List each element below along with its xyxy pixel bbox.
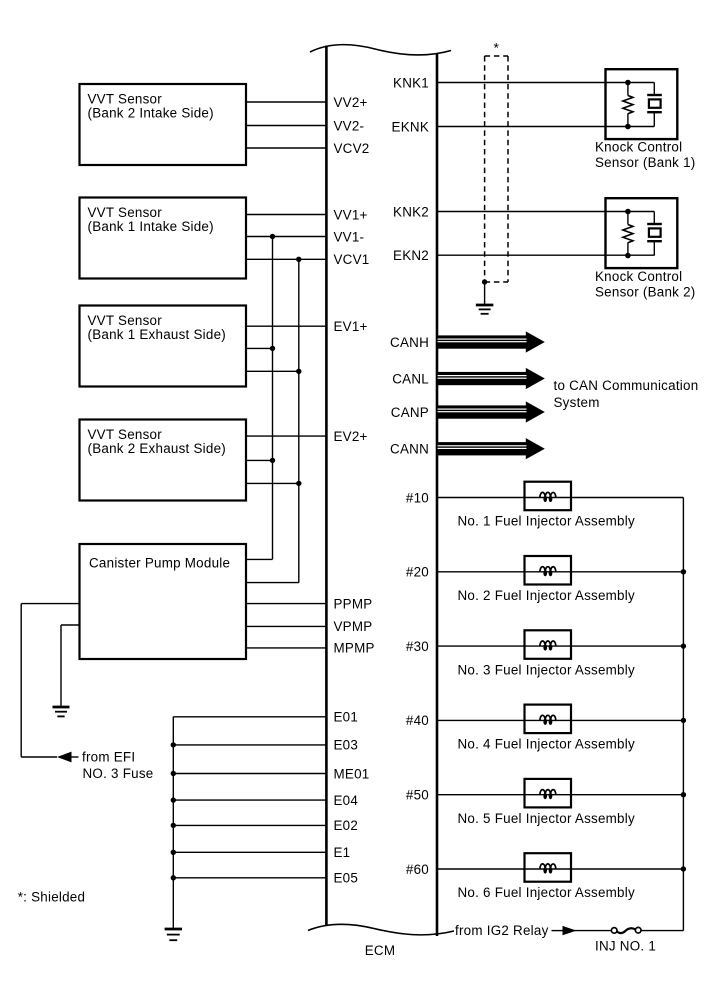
- label to CAN Communication System: [554, 378, 699, 410]
- wire VV2-: [246, 125, 327, 127]
- pin label CANH: [390, 335, 429, 350]
- svg-text:NO. 3 Fuse: NO. 3 Fuse: [83, 766, 154, 781]
- svg-text:to CAN Communication: to CAN Communication: [554, 378, 699, 393]
- label No. 3 Fuel Injector Assembly: [458, 662, 635, 677]
- svg-text:from EFI: from EFI: [82, 750, 135, 765]
- ECM label: [365, 943, 396, 958]
- bus arrow CANP: [437, 401, 545, 422]
- svg-text:#40: #40: [406, 713, 429, 728]
- svg-text:ECM: ECM: [365, 943, 396, 958]
- svg-text:(Bank 2 Exhaust Side): (Bank 2 Exhaust Side): [88, 441, 226, 456]
- svg-text:MPMP: MPMP: [334, 641, 375, 656]
- pin label EKNK: [392, 119, 429, 134]
- fuel injector coil L1: [525, 482, 572, 511]
- svg-text:No. 4 Fuel Injector Assembly: No. 4 Fuel Injector Assembly: [458, 737, 635, 752]
- wire Bank2-exhaust to VV1- net: [246, 458, 275, 463]
- svg-text:VV1-: VV1-: [334, 229, 365, 244]
- label No. 4 Fuel Injector Assembly: [458, 737, 635, 752]
- pin label VV2+: [334, 95, 368, 110]
- svg-text:#30: #30: [406, 639, 429, 654]
- VVT sensor (Bank 1 Exhaust Side): [80, 306, 247, 387]
- svg-text:VCV1: VCV1: [334, 252, 370, 267]
- fuel injector coil L6: [525, 853, 572, 882]
- svg-text:from IG2 Relay: from IG2 Relay: [455, 923, 549, 938]
- wire fuse to injector bus: [641, 930, 683, 932]
- injector common bus: [681, 498, 686, 931]
- svg-text:#20: #20: [406, 565, 429, 580]
- fuel injector coil L4: [525, 705, 572, 734]
- svg-text:VPMP: VPMP: [334, 619, 373, 634]
- svg-text:INJ NO. 1: INJ NO. 1: [595, 938, 656, 953]
- wire E1: [171, 850, 328, 855]
- wire VV1- net to canister: [246, 558, 273, 560]
- pin label #20: [406, 565, 429, 580]
- svg-text:#50: #50: [406, 788, 429, 803]
- svg-text:CANL: CANL: [392, 371, 429, 386]
- wire Bank1-exhaust to VCV1 net: [246, 369, 301, 374]
- knock control sensor (Bank 1): R + piezo element: [606, 69, 678, 139]
- svg-text:EKNK: EKNK: [392, 119, 429, 134]
- svg-text:E05: E05: [334, 871, 359, 886]
- svg-text:VV1+: VV1+: [334, 207, 368, 222]
- pin label E1: [334, 845, 351, 860]
- pin label E02: [334, 818, 359, 833]
- svg-text:Sensor (Bank 1): Sensor (Bank 1): [595, 155, 696, 170]
- wire EV2+: [246, 435, 327, 437]
- net VCV1 vertical bus: [298, 259, 300, 582]
- svg-text:*: *: [493, 40, 499, 56]
- wire VCV2: [246, 147, 327, 149]
- svg-text:PPMP: PPMP: [334, 596, 373, 611]
- ground (canister pump module): [53, 707, 70, 716]
- arrow from IG2 Relay: [552, 926, 577, 935]
- svg-text:Canister Pump Module: Canister Pump Module: [89, 556, 230, 571]
- wire KNK1: [437, 82, 654, 84]
- svg-text:VVT Sensor: VVT Sensor: [88, 205, 163, 220]
- wire VCV1: [246, 257, 327, 262]
- wire canister to EFI fuse: [21, 604, 79, 757]
- fuel injector coil L5: [525, 779, 572, 808]
- arrow from EFI NO.3 Fuse: [57, 752, 79, 763]
- wire E05: [171, 875, 328, 880]
- wire VV1+: [246, 214, 327, 216]
- label Knock Control Sensor (Bank 1): [595, 140, 696, 171]
- wire PPMP: [246, 603, 327, 605]
- injector #40 wire: [437, 719, 683, 721]
- bus arrow CANN: [437, 438, 545, 459]
- svg-text:VVT Sensor: VVT Sensor: [88, 427, 163, 442]
- wire EKN2: [437, 254, 654, 256]
- pin label #10: [406, 490, 429, 505]
- svg-text:EV2+: EV2+: [334, 429, 368, 444]
- pin label VV1+: [334, 207, 368, 222]
- svg-text:E01: E01: [334, 710, 359, 725]
- bus arrow CANH: [437, 331, 545, 352]
- pin label PPMP: [334, 596, 373, 611]
- pin label VCV2: [334, 141, 370, 156]
- injector #50 wire: [437, 794, 683, 796]
- pin label E03: [334, 738, 359, 753]
- ECM connector body (torn-edge box): [308, 45, 454, 936]
- svg-text:No. 3 Fuel Injector Assembly: No. 3 Fuel Injector Assembly: [458, 662, 635, 677]
- label No. 2 Fuel Injector Assembly: [458, 588, 635, 603]
- ground (E bus): [165, 929, 182, 940]
- pin label ME01: [334, 766, 370, 781]
- bus arrow CANL: [437, 368, 545, 389]
- VVT sensor (Bank 1 Intake Side): [80, 198, 247, 279]
- wire EV1+: [246, 325, 327, 327]
- pin label MPMP: [334, 641, 375, 656]
- svg-text:(Bank 2 Intake Side): (Bank 2 Intake Side): [88, 106, 214, 121]
- shield asterisk marker: [493, 40, 499, 56]
- wire E01: [173, 716, 327, 718]
- svg-text:Knock Control: Knock Control: [595, 269, 682, 284]
- svg-text:CANP: CANP: [391, 405, 429, 420]
- svg-text:No. 6 Fuel Injector Assembly: No. 6 Fuel Injector Assembly: [458, 885, 635, 900]
- pin label CANP: [391, 405, 429, 420]
- pin label CANN: [390, 442, 429, 457]
- pin label #50: [406, 788, 429, 803]
- wire EKNK: [437, 126, 654, 128]
- label No. 5 Fuel Injector Assembly: [458, 811, 635, 826]
- injector #10 wire: [437, 497, 683, 499]
- fuse INJ NO. 1: [611, 927, 641, 933]
- wire Bank2-exhaust to VCV1 net: [246, 481, 301, 486]
- pin label KNK2: [393, 204, 429, 219]
- pin label #30: [406, 639, 429, 654]
- label from EFI NO. 3 Fuse: [82, 750, 153, 781]
- svg-text:KNK1: KNK1: [393, 75, 429, 90]
- pin label E04: [334, 793, 359, 808]
- fuel injector coil L3: [525, 630, 572, 659]
- pin label #40: [406, 713, 429, 728]
- wire Bank1-exhaust to VV1- net: [246, 346, 275, 351]
- pin label VPMP: [334, 619, 373, 634]
- pin label VV2-: [334, 118, 365, 133]
- pin label VV1-: [334, 229, 365, 244]
- svg-text:EKN2: EKN2: [393, 248, 429, 263]
- pin label EV1+: [334, 319, 368, 334]
- svg-text:VVT Sensor: VVT Sensor: [88, 313, 163, 328]
- pin label VCV1: [334, 252, 370, 267]
- label from IG2 Relay: [455, 923, 549, 938]
- label No. 1 Fuel Injector Assembly: [458, 514, 635, 529]
- wire MPMP: [246, 647, 327, 649]
- pin label EKN2: [393, 248, 429, 263]
- svg-text:VV2-: VV2-: [334, 118, 365, 133]
- svg-text:CANH: CANH: [390, 335, 429, 350]
- pin label E01: [334, 710, 359, 725]
- svg-text:VV2+: VV2+: [334, 95, 368, 110]
- label Knock Control Sensor (Bank 2): [595, 269, 696, 300]
- fuel injector coil L2: [525, 556, 572, 585]
- label No. 6 Fuel Injector Assembly: [458, 885, 635, 900]
- ground (shield): [476, 305, 494, 314]
- injector #20 wire: [437, 571, 683, 573]
- svg-text:No. 1 Fuel Injector Assembly: No. 1 Fuel Injector Assembly: [458, 514, 635, 529]
- pin label KNK1: [393, 75, 429, 90]
- label INJ NO. 1: [595, 938, 656, 953]
- svg-text:ME01: ME01: [334, 766, 370, 781]
- wire IG2 relay to fuse: [574, 930, 612, 932]
- net VV1- vertical bus: [272, 237, 274, 560]
- svg-text:*: Shielded: *: Shielded: [18, 889, 86, 904]
- node shield drain junction: [482, 279, 487, 284]
- shield (dashed) around knock sensor wires: [485, 56, 508, 282]
- svg-text:No. 5 Fuel Injector Assembly: No. 5 Fuel Injector Assembly: [458, 811, 635, 826]
- svg-text:E02: E02: [334, 818, 359, 833]
- svg-text:VVT Sensor: VVT Sensor: [88, 92, 163, 107]
- svg-text:CANN: CANN: [390, 442, 429, 457]
- pin label E05: [334, 871, 359, 886]
- wire shield to ground: [484, 282, 486, 304]
- svg-text:(Bank 1 Intake Side): (Bank 1 Intake Side): [88, 219, 214, 234]
- wire KNK2: [437, 211, 654, 213]
- wire ME01: [171, 771, 328, 776]
- VVT sensor (Bank 2 Exhaust Side): [80, 420, 247, 501]
- wire VCV1 net to canister: [246, 582, 299, 584]
- wire VV2+: [246, 101, 327, 103]
- ground bus vertical: [172, 717, 174, 929]
- wire E04: [171, 797, 328, 802]
- injector #60 wire: [437, 868, 683, 870]
- svg-text:E1: E1: [334, 845, 351, 860]
- wire canister to ground: [61, 625, 80, 707]
- injector #30 wire: [437, 645, 683, 647]
- svg-text:Sensor (Bank 2): Sensor (Bank 2): [595, 284, 696, 299]
- svg-text:No. 2 Fuel Injector Assembly: No. 2 Fuel Injector Assembly: [458, 588, 635, 603]
- svg-text:#60: #60: [406, 862, 429, 877]
- svg-text:#10: #10: [406, 490, 429, 505]
- svg-text:E04: E04: [334, 793, 359, 808]
- svg-text:EV1+: EV1+: [334, 319, 368, 334]
- note *: Shielded: [18, 889, 86, 904]
- svg-text:System: System: [554, 395, 600, 410]
- Canister Pump Module: [80, 544, 247, 659]
- wire VPMP: [246, 625, 327, 627]
- svg-text:(Bank 1 Exhaust Side): (Bank 1 Exhaust Side): [88, 327, 226, 342]
- knock control sensor (Bank 2): R + piezo element: [606, 198, 678, 268]
- pin label #60: [406, 862, 429, 877]
- svg-text:KNK2: KNK2: [393, 204, 429, 219]
- wire E03: [171, 742, 328, 747]
- pin label CANL: [392, 371, 429, 386]
- svg-text:Knock Control: Knock Control: [595, 140, 682, 155]
- wire E02: [171, 823, 328, 828]
- svg-text:VCV2: VCV2: [334, 141, 370, 156]
- pin label EV2+: [334, 429, 368, 444]
- svg-text:E03: E03: [334, 738, 359, 753]
- VVT sensor (Bank 2 Intake Side): [80, 84, 247, 165]
- wire VV1-: [246, 234, 327, 239]
